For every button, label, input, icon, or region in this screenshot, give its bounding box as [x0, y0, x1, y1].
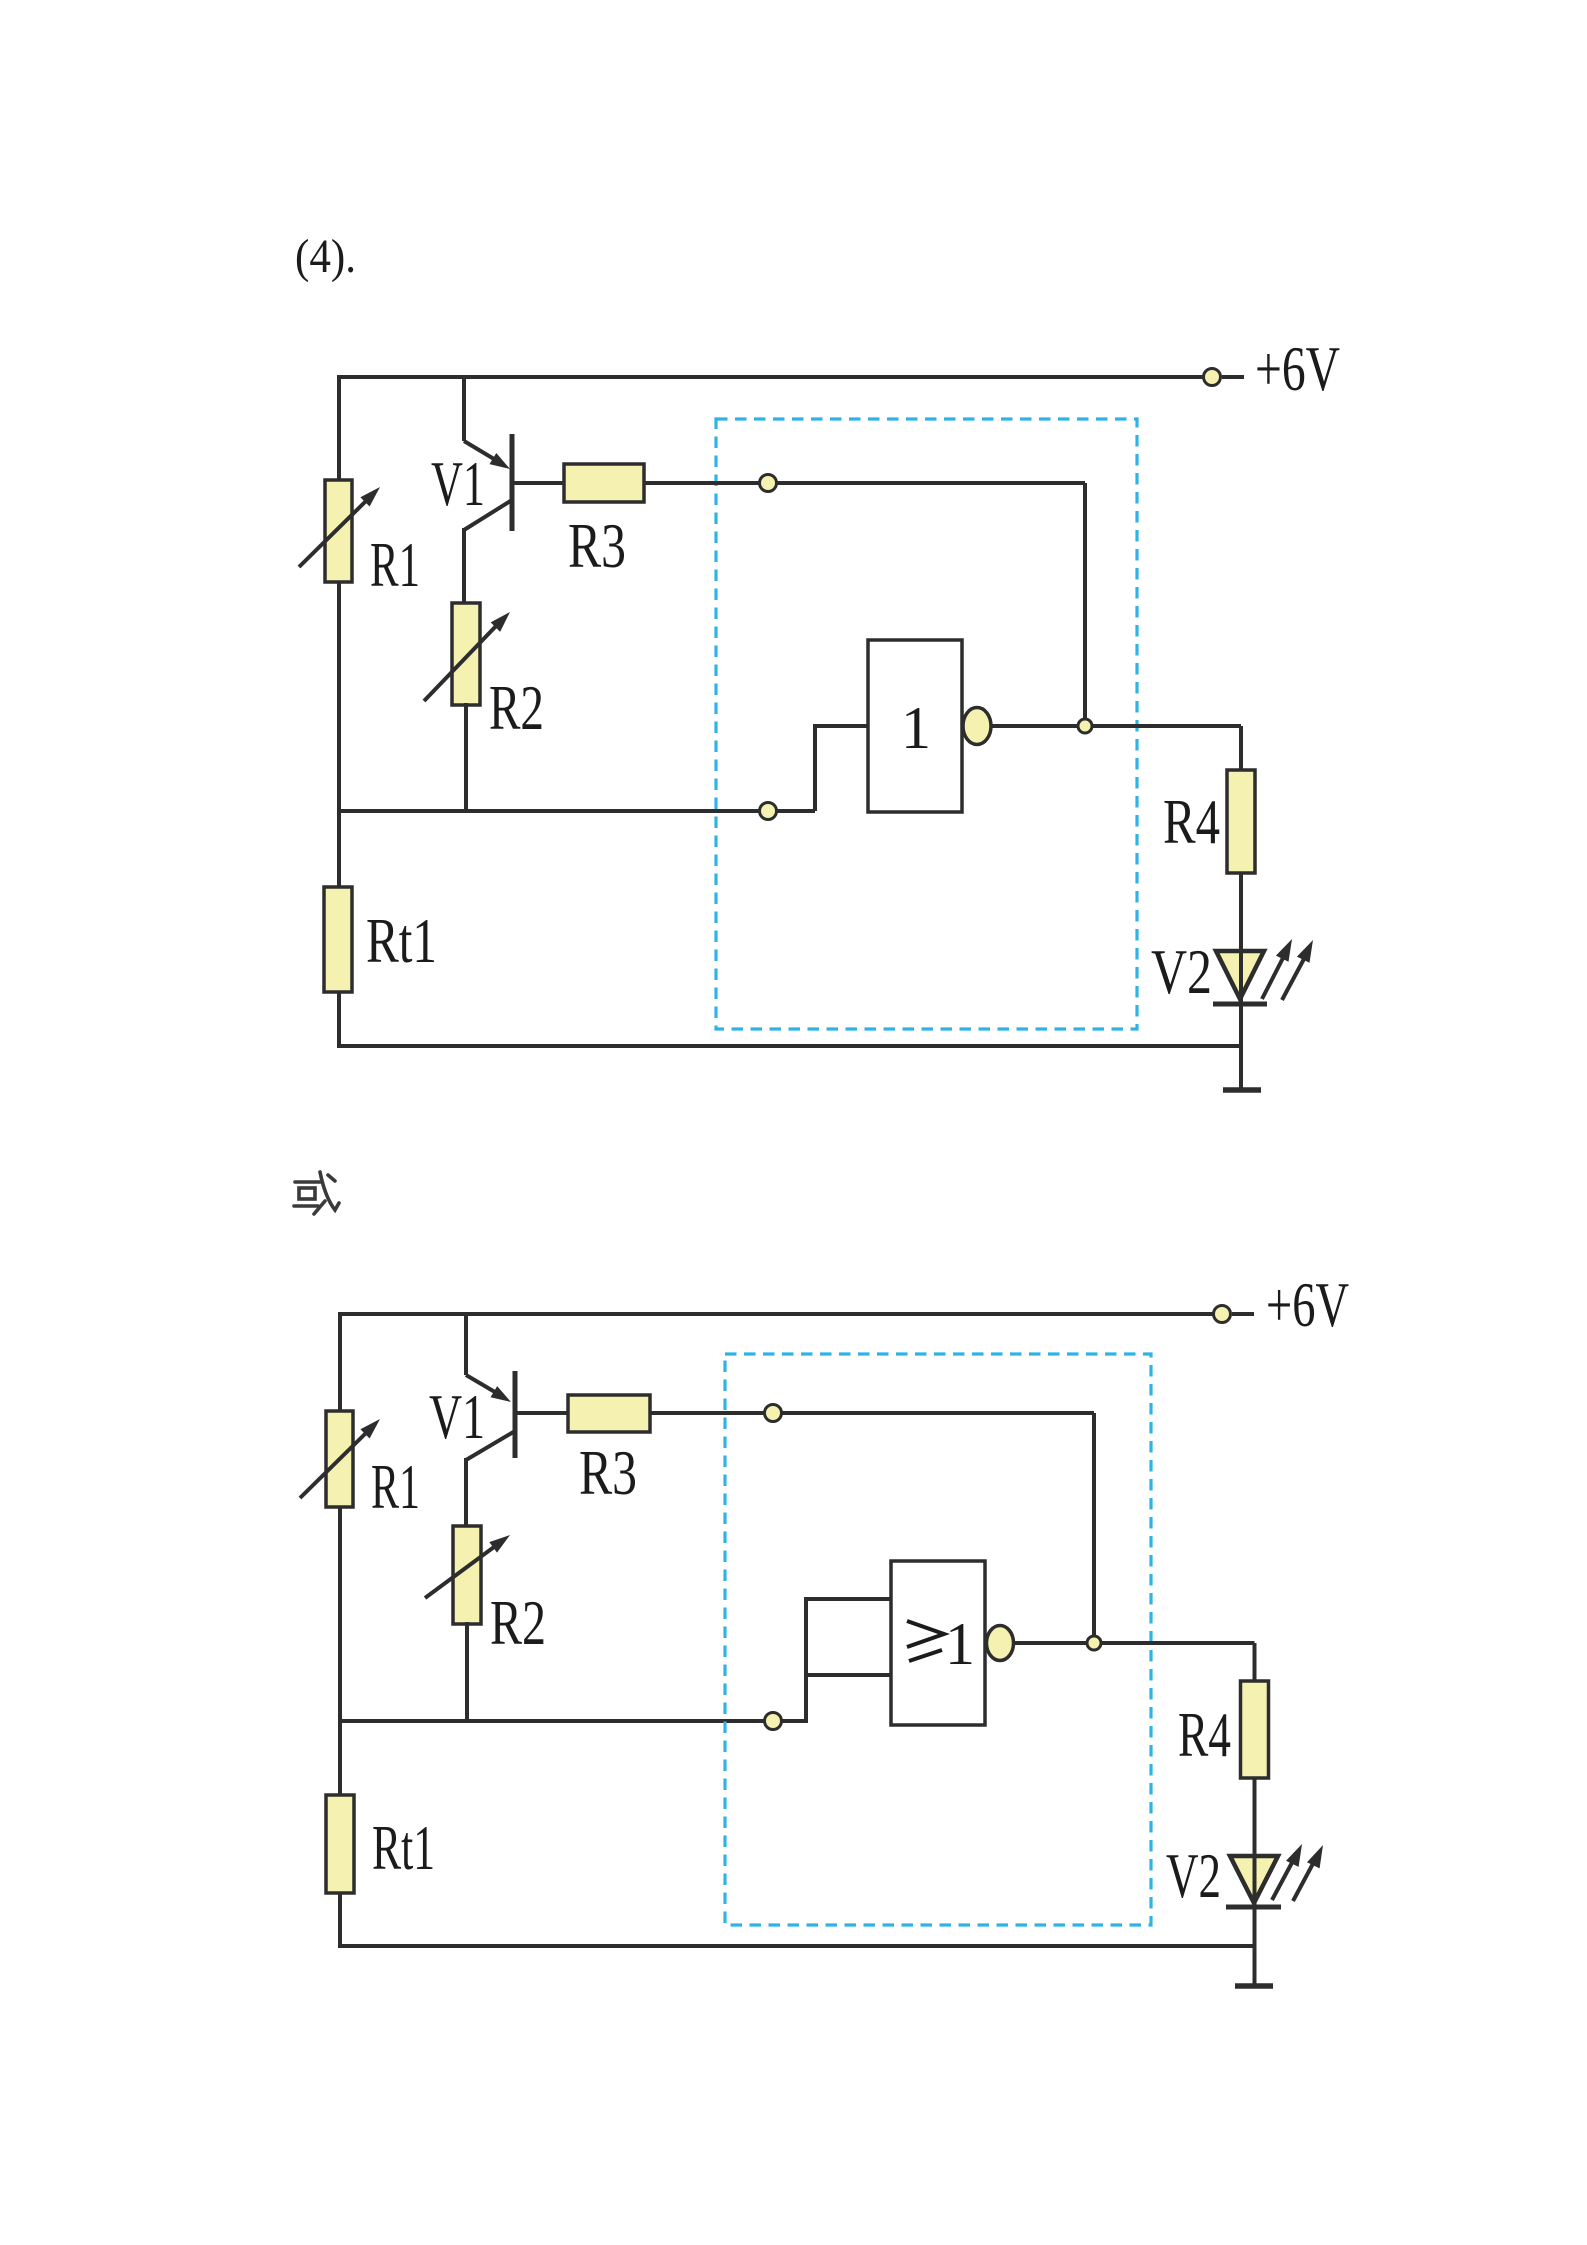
transistor V1 circuit2 [466, 1314, 515, 1528]
svg-text:R1: R1 [370, 529, 420, 600]
node output circuit2 [1087, 1636, 1101, 1650]
dashed box circuit1 [716, 419, 1137, 1029]
node output circuit1 [1078, 719, 1092, 733]
wire R4 through LED circuit1 [1239, 873, 1243, 1004]
wire middle rail circuit1 [339, 809, 815, 813]
wire LED to ground circuit1 [1239, 1004, 1243, 1090]
resistor R2 (variable) circuit1 [424, 603, 510, 705]
wire R2 bottom circuit2 [465, 1622, 469, 1723]
wire gate output circuit1 [991, 724, 1241, 728]
wire to R4 circuit2 [1253, 1643, 1257, 1683]
svg-text:1: 1 [901, 695, 931, 761]
svg-text:+6V: +6V [1266, 1269, 1349, 1340]
output bubble circuit1 [963, 708, 991, 745]
wire left rail [337, 375, 341, 1048]
resistor R3 circuit1 [564, 464, 644, 502]
wire gate output circuit2 [1013, 1641, 1255, 1645]
resistor R2 (variable) circuit2 [425, 1526, 510, 1624]
label 或 [294, 1172, 339, 1214]
svg-text:(4).: (4). [295, 230, 356, 283]
thermistor Rt1 circuit2 [326, 1795, 354, 1893]
svg-text:R4: R4 [1163, 786, 1220, 857]
terminal +6V circuit2 [1214, 1306, 1255, 1323]
terminal input top circuit2 [765, 1405, 782, 1422]
svg-text:R2: R2 [489, 672, 544, 743]
terminal input bottom circuit1 [760, 803, 777, 820]
wire vertical feed to output node circuit1 [1083, 483, 1087, 726]
svg-text:V1: V1 [431, 448, 485, 519]
wire OR-gate input vertical circuit2 [804, 1597, 808, 1723]
wire R4 through LED circuit2 [1253, 1778, 1257, 1907]
svg-text:Rt1: Rt1 [372, 1812, 435, 1883]
wire gate input step circuit1 [815, 726, 868, 811]
wire OR-gate input stub bottom circuit2 [806, 1673, 891, 1677]
transistor V1 circuit1 [464, 377, 512, 605]
resistor R4 circuit2 [1241, 1681, 1269, 1778]
wire vertical feed to output node circuit2 [1092, 1413, 1096, 1643]
svg-text:V2: V2 [1151, 936, 1212, 1007]
wire OR-gate input stub top circuit2 [806, 1597, 891, 1601]
terminal input top circuit1 [760, 475, 777, 492]
wire base lead circuit2 [516, 1411, 570, 1415]
ground circuit2 [1235, 1983, 1273, 1989]
svg-text:V1: V1 [429, 1381, 485, 1452]
wire R3 to gate-region circuit1 [644, 481, 1085, 485]
thermistor Rt1 circuit1 [324, 887, 352, 992]
resistor R3 circuit2 [568, 1395, 650, 1432]
wire base lead circuit1 [513, 481, 566, 485]
svg-text:V2: V2 [1166, 1840, 1221, 1911]
svg-text:R3: R3 [568, 510, 626, 581]
wire LED to ground circuit2 [1253, 1907, 1257, 1986]
ground circuit1 [1223, 1087, 1261, 1093]
logic gate U1 (NOT, "1") circuit1 [868, 640, 962, 812]
wire bottom rail circuit2 [340, 1944, 1255, 1948]
resistor R1 (variable) [299, 480, 380, 582]
dashed box circuit2 [725, 1354, 1151, 1925]
output bubble circuit2 [987, 1626, 1014, 1661]
resistor R4 circuit1 [1227, 770, 1255, 873]
svg-text:R2: R2 [490, 1587, 546, 1658]
svg-text:Rt1: Rt1 [366, 905, 437, 976]
wire R2 bottom circuit1 [464, 703, 468, 813]
svg-text:1: 1 [945, 1611, 975, 1677]
svg-text:+6V: +6V [1255, 333, 1340, 404]
LED V2 circuit2 [1226, 1844, 1323, 1907]
wire to R4 circuit1 [1239, 726, 1243, 772]
terminal +6V circuit1 [1204, 369, 1245, 386]
svg-text:R3: R3 [579, 1437, 637, 1508]
logic gate U2 (OR, ">=1") circuit2 [891, 1561, 985, 1725]
wire left rail circuit2 [338, 1312, 342, 1948]
svg-text:R4: R4 [1178, 1699, 1231, 1770]
LED V2 circuit1 [1213, 939, 1313, 1004]
wire top +6V rail circuit2 [340, 1312, 1222, 1316]
terminal input bottom circuit2 [765, 1713, 782, 1730]
svg-text:R1: R1 [371, 1451, 420, 1522]
resistor R1 (variable) circuit2 [300, 1411, 380, 1507]
wire bottom rail circuit1 [339, 1044, 1241, 1048]
wire top +6V rail [339, 375, 1212, 379]
wire R3 to gate-region circuit2 [650, 1411, 1094, 1415]
wire middle rail circuit2 [340, 1719, 806, 1723]
